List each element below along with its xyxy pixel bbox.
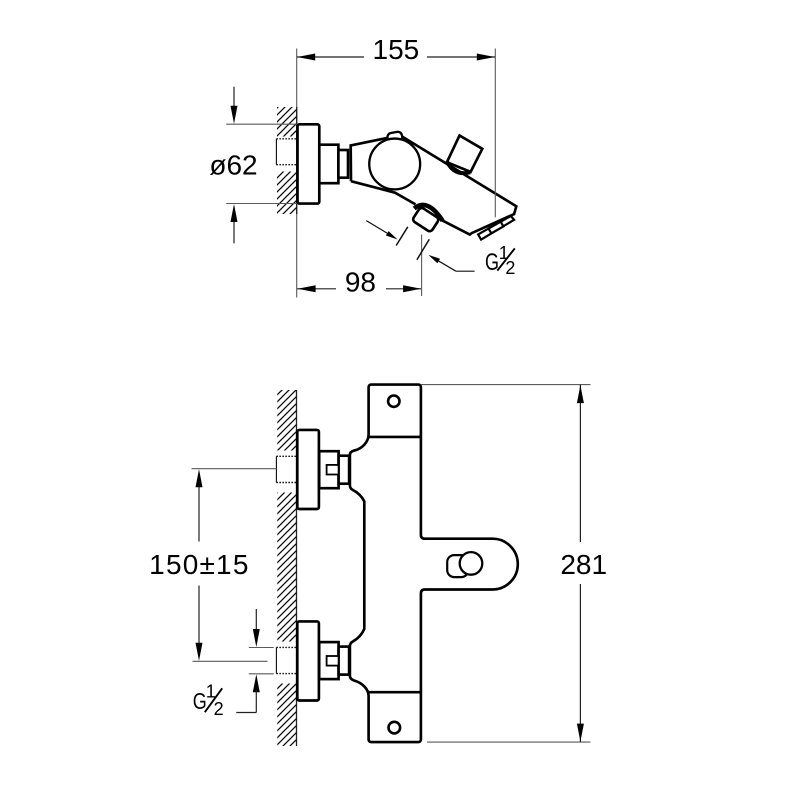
svg-text:155: 155	[373, 34, 420, 65]
top mounting plate lower edge	[369, 436, 421, 439]
aerator end cap (top view)	[478, 216, 514, 240]
aerator notch (top view)	[489, 222, 504, 234]
tick mark on extension line	[417, 239, 429, 260]
thread OD arrows	[255, 609, 257, 631]
dimension line 155	[297, 56, 364, 58]
temperature knob circle (bottom view)	[460, 552, 483, 575]
handle base arc (top view)	[447, 161, 470, 173]
cover step A (top view)	[319, 145, 338, 184]
svg-text:G: G	[193, 688, 207, 714]
shower outlet fillet arc (top view)	[414, 205, 442, 221]
svg-text:150±15: 150±15	[149, 549, 249, 580]
extension lines for 281	[421, 384, 590, 386]
thread OD extension lines	[249, 647, 274, 649]
svg-text:2: 2	[505, 258, 515, 278]
dimension line 281	[579, 385, 581, 542]
tick mark at shower outlet	[396, 227, 408, 246]
extension line right for 98	[421, 235, 423, 297]
upper threaded wall connection (bottom view, dotted)	[276, 456, 297, 482]
lower union notch (bottom view)	[327, 656, 339, 666]
dimension line 98	[297, 288, 336, 290]
lower wall flange (bottom view)	[297, 621, 319, 700]
leader line G1/2 (top view)	[456, 270, 475, 272]
bottom plate screw hole	[389, 722, 401, 734]
pointer arrow to shower outlet	[366, 221, 389, 235]
svg-text:98: 98	[345, 266, 376, 297]
mixer body outline (bottom view)	[350, 385, 518, 742]
knob cap (top view)	[387, 131, 403, 144]
svg-text:2: 2	[214, 699, 224, 719]
temperature knob cylinder (bottom view)	[447, 555, 468, 577]
svg-text:G: G	[485, 249, 499, 276]
extension line lower inlet axis	[193, 660, 268, 662]
mixer body and spout (top view)	[351, 135, 517, 234]
cover step B (top view)	[338, 150, 348, 178]
wall face line (top view)	[296, 49, 298, 298]
dimension line 150 plus-minus 15	[198, 486, 200, 542]
extension line upper inlet axis	[192, 468, 277, 470]
extension line right for 155	[494, 49, 496, 218]
wall section edge (top view)	[296, 107, 298, 214]
lower threaded wall connection (bottom view, dotted)	[276, 647, 297, 673]
upper wall flange (bottom view)	[297, 430, 319, 509]
svg-text:281: 281	[560, 549, 607, 580]
thermostat knob circle (top view)	[369, 139, 420, 190]
threaded wall connection (top view, dotted)	[276, 139, 297, 165]
svg-text:ø62: ø62	[209, 150, 257, 181]
top plate screw hole	[388, 396, 399, 407]
shower outlet connector G1/2 (top view)	[412, 207, 440, 233]
bottom mounting plate upper edge	[369, 691, 421, 694]
lower union nut (bottom view)	[319, 642, 338, 679]
extension lines for diameter 62	[226, 123, 297, 125]
diverter handle (top view)	[447, 136, 482, 172]
wall hatching (bottom view)	[277, 390, 296, 451]
leader to G1/2 label (bottom view)	[236, 712, 256, 714]
upper union nut (bottom view)	[319, 451, 338, 488]
wall flange / escutcheon (top view)	[298, 124, 320, 203]
arrows for diameter 62	[233, 87, 235, 107]
wall hatching (top view)	[277, 107, 297, 137]
upper union notch (bottom view)	[327, 465, 339, 475]
wall face line (bottom view)	[296, 390, 298, 746]
